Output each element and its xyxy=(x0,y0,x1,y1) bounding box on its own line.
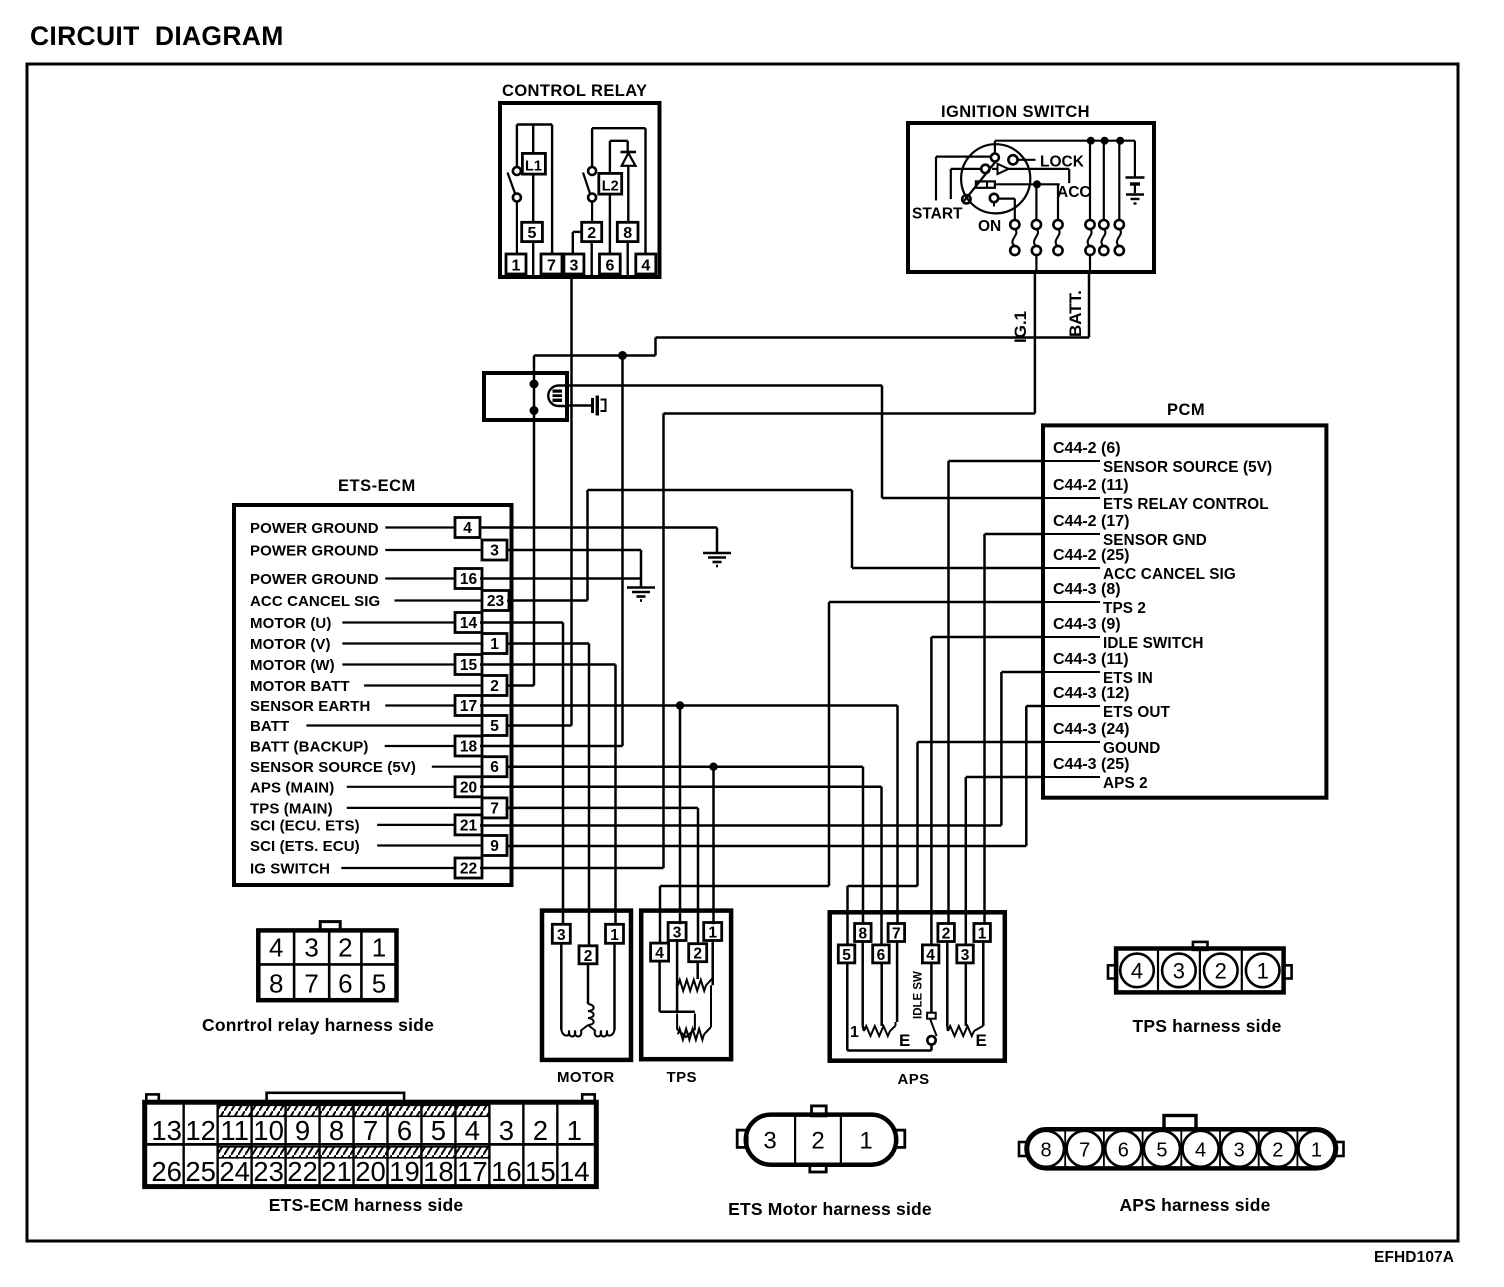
PCM pin C44-3 (25) APS 2 xyxy=(1044,756,1148,792)
svg-text:MOTOR BATT: MOTOR BATT xyxy=(250,678,350,695)
svg-text:7: 7 xyxy=(304,969,318,999)
APS sensor xyxy=(830,912,1005,1088)
svg-text:7: 7 xyxy=(892,926,901,943)
relay coil L1 xyxy=(532,125,534,154)
svg-text:3: 3 xyxy=(569,258,578,275)
svg-text:C44-3 (25): C44-3 (25) xyxy=(1053,756,1129,773)
TPS pin 2 xyxy=(689,944,707,962)
svg-text:POWER GROUND: POWER GROUND xyxy=(250,520,379,537)
svg-text:2: 2 xyxy=(533,1115,548,1146)
svg-text:2: 2 xyxy=(693,946,702,963)
wire pin7 to rail xyxy=(551,125,553,255)
svg-text:7: 7 xyxy=(547,258,556,275)
PCM pin C44-3 (11) ETS IN xyxy=(1044,651,1153,687)
svg-text:3: 3 xyxy=(763,1128,776,1155)
svg-text:MOTOR (U): MOTOR (U) xyxy=(250,615,331,632)
svg-text:1: 1 xyxy=(1257,958,1269,983)
ETS-ECM pin 9 SCI (ETS. ECU) xyxy=(250,836,507,856)
START node xyxy=(936,156,991,158)
svg-text:APS: APS xyxy=(898,1071,930,1088)
svg-text:21: 21 xyxy=(460,817,478,834)
svg-text:START: START xyxy=(912,206,963,223)
relay coil L2 xyxy=(610,140,628,142)
ETS-ECM pin 3 POWER GROUND xyxy=(250,540,507,560)
diode D1 xyxy=(627,141,629,152)
svg-text:10: 10 xyxy=(253,1115,284,1146)
motor pin 3 xyxy=(552,924,570,943)
svg-text:1: 1 xyxy=(372,933,386,963)
svg-text:3: 3 xyxy=(1173,958,1185,983)
relay pin 4 xyxy=(636,254,656,274)
svg-text:5: 5 xyxy=(431,1115,446,1146)
svg-text:4: 4 xyxy=(465,1115,480,1146)
control relay harness connector xyxy=(202,922,434,1035)
svg-text:11: 11 xyxy=(220,1115,249,1146)
svg-text:5: 5 xyxy=(842,947,851,964)
PCM pin C44-3 (12) ETS OUT xyxy=(1044,685,1171,721)
svg-text:18: 18 xyxy=(460,739,478,756)
rotor arm xyxy=(964,161,997,202)
junction node A xyxy=(618,351,627,360)
relay switch S1 xyxy=(516,125,518,168)
ACC contact xyxy=(951,168,981,170)
svg-text:C44-3 (9): C44-3 (9) xyxy=(1053,616,1121,633)
net SCI ECU-ETS / ETS IN xyxy=(480,672,1043,826)
svg-text:4: 4 xyxy=(463,520,472,537)
APS idle switch xyxy=(847,963,936,1051)
PCM pin C44-2 (17) SENSOR GND xyxy=(1044,513,1207,549)
wire MOTOR V xyxy=(507,644,589,946)
svg-text:SENSOR EARTH: SENSOR EARTH xyxy=(250,698,370,715)
svg-text:4: 4 xyxy=(641,258,650,275)
svg-text:25: 25 xyxy=(185,1156,216,1187)
svg-text:BATT (BACKUP): BATT (BACKUP) xyxy=(250,739,369,756)
ETS-ECM pin 14 MOTOR (U) xyxy=(250,613,482,633)
svg-text:TPS 2: TPS 2 xyxy=(1103,600,1146,617)
wire pin4 to rail xyxy=(644,128,646,254)
svg-text:2: 2 xyxy=(490,678,499,695)
battery B+ xyxy=(1134,141,1136,178)
svg-text:24: 24 xyxy=(219,1156,250,1187)
wire POWER GROUND 16 xyxy=(480,577,641,580)
svg-text:APS harness side: APS harness side xyxy=(1119,1195,1270,1215)
wire POWER GROUND 3 xyxy=(507,549,641,552)
svg-text:MOTOR (V): MOTOR (V) xyxy=(250,636,331,653)
svg-text:1: 1 xyxy=(567,1115,582,1146)
ETS-ECM pin 7 TPS (MAIN) xyxy=(250,798,507,818)
svg-text:2: 2 xyxy=(811,1128,824,1155)
svg-text:ETS-ECM harness side: ETS-ECM harness side xyxy=(269,1195,464,1215)
battery bus wire xyxy=(995,140,1135,142)
APS pin 8 xyxy=(855,924,872,942)
ETS-ECM pin 21 SCI (ECU. ETS) xyxy=(250,815,482,835)
wire MOTOR BATT xyxy=(507,684,534,687)
svg-text:6: 6 xyxy=(490,759,499,776)
svg-text:17: 17 xyxy=(457,1156,488,1187)
svg-text:6: 6 xyxy=(605,258,614,275)
svg-text:19: 19 xyxy=(389,1156,420,1187)
svg-text:3: 3 xyxy=(499,1115,514,1146)
svg-text:1: 1 xyxy=(610,927,619,944)
svg-text:2: 2 xyxy=(1272,1140,1283,1162)
svg-text:3: 3 xyxy=(557,927,566,944)
motor windings xyxy=(561,943,614,1036)
relay pin 1 xyxy=(506,254,526,274)
svg-text:C44-2 (25): C44-2 (25) xyxy=(1053,547,1129,564)
relay top rail left xyxy=(517,123,552,125)
ETS Motor harness connector xyxy=(728,1106,932,1219)
svg-text:17: 17 xyxy=(460,698,477,715)
svg-text:4: 4 xyxy=(1195,1140,1206,1162)
net SENSOR GND to APS1 xyxy=(985,534,1044,924)
net SENSOR EARTH xyxy=(480,701,898,924)
ETS-ECM pin 4 POWER GROUND xyxy=(250,518,480,538)
motor pin 1 xyxy=(606,924,624,943)
wire MOTOR U xyxy=(480,623,563,925)
net BATT. xyxy=(534,272,1089,384)
svg-text:1: 1 xyxy=(708,925,717,942)
ETS-ECM pin 23 ACC CANCEL SIG xyxy=(250,591,509,611)
svg-text:22: 22 xyxy=(460,861,477,878)
ground G2 xyxy=(627,586,655,589)
svg-text:Conrtrol relay harness side: Conrtrol relay harness side xyxy=(202,1015,434,1035)
svg-text:MOTOR (W): MOTOR (W) xyxy=(250,657,335,674)
ETS-ECM pin 6 SENSOR SOURCE (5V) xyxy=(250,757,507,777)
svg-text:EFHD107A: EFHD107A xyxy=(1374,1249,1454,1266)
motor M1 xyxy=(542,911,631,1086)
svg-text:L1: L1 xyxy=(525,159,542,175)
motor pin 2 xyxy=(579,946,597,964)
PCM pin C44-2 (6) SENSOR SOURCE (5V) xyxy=(1044,440,1272,476)
LOCK contact xyxy=(991,154,999,162)
svg-text:C44-3 (24): C44-3 (24) xyxy=(1053,721,1129,738)
svg-text:16: 16 xyxy=(491,1156,522,1187)
wire fuse to ETS relay control xyxy=(567,386,1043,499)
svg-text:1: 1 xyxy=(490,636,499,653)
PCM pin C44-3 (24) GOUND xyxy=(1044,721,1160,757)
PCM pin C44-2 (11) ETS RELAY CONTROL xyxy=(1044,477,1269,513)
svg-text:MOTOR: MOTOR xyxy=(557,1069,615,1086)
wire pin2 to pin3 xyxy=(573,231,582,233)
svg-text:2: 2 xyxy=(587,225,596,242)
ETS-ECM pin 15 MOTOR (W) xyxy=(250,655,482,675)
APS pin 6 xyxy=(873,945,890,963)
APS pin 3 xyxy=(957,945,974,963)
svg-text:3: 3 xyxy=(961,947,970,964)
svg-text:20: 20 xyxy=(460,779,477,796)
TPS sensor xyxy=(641,911,731,1086)
rotor circle xyxy=(961,144,1030,213)
wire relay pin3 to BATT row xyxy=(570,277,573,726)
APS pin 7 xyxy=(888,924,905,942)
svg-text:L2: L2 xyxy=(602,179,619,195)
rotor contact bar xyxy=(976,181,995,187)
svg-text:1: 1 xyxy=(850,1024,859,1041)
ETS-ECM pin 18 BATT (BACKUP) xyxy=(250,736,482,756)
ON feed wire xyxy=(995,183,1060,185)
wire BATT BACKUP xyxy=(480,745,623,748)
svg-text:8: 8 xyxy=(269,969,283,999)
svg-text:E: E xyxy=(976,1031,987,1050)
svg-text:ACC CANCEL SIG: ACC CANCEL SIG xyxy=(1103,566,1236,583)
TPS potentiometer R1 xyxy=(677,941,713,1012)
svg-text:ACC CANCEL SIG: ACC CANCEL SIG xyxy=(250,593,380,610)
svg-text:15: 15 xyxy=(460,657,478,674)
TPS pin 3 xyxy=(668,923,686,941)
net IG.1 xyxy=(664,272,1035,868)
svg-text:6: 6 xyxy=(397,1115,412,1146)
ignition contact columns xyxy=(1010,141,1124,272)
net SENSOR SOURCE 5V xyxy=(507,763,863,925)
svg-text:IG SWITCH: IG SWITCH xyxy=(250,861,330,878)
svg-text:SCI (ETS. ECU): SCI (ETS. ECU) xyxy=(250,838,360,855)
wire TPS MAIN xyxy=(507,808,698,944)
ETS-ECM U1 xyxy=(234,477,512,885)
svg-text:TPS harness side: TPS harness side xyxy=(1132,1016,1281,1036)
svg-text:7: 7 xyxy=(1079,1140,1090,1162)
relay pin 6 xyxy=(600,254,621,274)
svg-text:4: 4 xyxy=(655,945,664,962)
PCM U2 xyxy=(1043,401,1326,798)
wire APS MAIN xyxy=(480,787,882,945)
PCM pin C44-2 (25) ACC CANCEL SIG xyxy=(1044,547,1236,583)
TPS pin 4 xyxy=(651,943,669,961)
svg-text:23: 23 xyxy=(253,1156,284,1187)
svg-text:PCM: PCM xyxy=(1167,401,1205,419)
net ACC CANCEL SIG xyxy=(507,490,1043,601)
TPS pin 1 xyxy=(704,923,722,941)
svg-text:14: 14 xyxy=(559,1156,590,1187)
APS pin 2 xyxy=(938,924,955,942)
svg-text:C44-3 (12): C44-3 (12) xyxy=(1053,685,1129,702)
svg-text:2: 2 xyxy=(942,926,951,943)
ETS-ECM pin 1 MOTOR (V) xyxy=(250,634,507,654)
svg-text:TPS: TPS xyxy=(667,1069,697,1086)
svg-text:2: 2 xyxy=(584,948,593,965)
TPS potentiometer R2 with wiper xyxy=(660,961,711,1040)
net SENSOR SOURCE PCM to APS2 xyxy=(949,461,1044,924)
APS pin 5 xyxy=(838,945,855,963)
relay switch S2 xyxy=(591,128,593,167)
APS pin 1 xyxy=(974,924,991,942)
svg-text:15: 15 xyxy=(525,1156,556,1187)
svg-text:5: 5 xyxy=(1156,1140,1167,1162)
ON contact xyxy=(962,195,970,203)
svg-text:5: 5 xyxy=(490,718,499,735)
ETS-ECM pin 5 BATT xyxy=(250,716,507,736)
svg-text:POWER GROUND: POWER GROUND xyxy=(250,571,379,588)
net TPS 2 xyxy=(660,602,1043,943)
wire POWER GROUND 4 to ground xyxy=(480,526,717,529)
APS pin 4 xyxy=(922,945,939,963)
svg-text:5: 5 xyxy=(372,969,386,999)
svg-text:16: 16 xyxy=(460,571,478,588)
svg-text:6: 6 xyxy=(1118,1140,1129,1162)
svg-text:23: 23 xyxy=(487,593,505,610)
svg-text:9: 9 xyxy=(295,1115,310,1146)
svg-text:POWER GROUND: POWER GROUND xyxy=(250,543,379,560)
svg-text:CIRCUIT DIAGRAM: CIRCUIT DIAGRAM xyxy=(30,21,284,51)
net SCI ETS-ECU / ETS OUT xyxy=(507,706,1043,846)
svg-text:4: 4 xyxy=(1131,958,1143,983)
svg-text:1: 1 xyxy=(859,1128,872,1155)
svg-text:12: 12 xyxy=(185,1115,216,1146)
svg-text:13: 13 xyxy=(151,1115,182,1146)
ETS-ECM pin 17 SENSOR EARTH xyxy=(250,696,482,716)
net GOUND xyxy=(848,742,1044,945)
svg-text:IGNITION SWITCH: IGNITION SWITCH xyxy=(941,103,1090,121)
APS pot 2 xyxy=(947,942,987,1051)
svg-text:26: 26 xyxy=(151,1156,182,1187)
svg-text:20: 20 xyxy=(355,1156,386,1187)
svg-text:ETS RELAY CONTROL: ETS RELAY CONTROL xyxy=(1103,496,1269,513)
PCM pin C44-3 (8) TPS 2 xyxy=(1044,581,1146,617)
svg-text:E: E xyxy=(899,1031,910,1050)
svg-text:C44-2 (11): C44-2 (11) xyxy=(1053,477,1129,494)
svg-text:ETS-ECM: ETS-ECM xyxy=(338,477,416,495)
wire BATT xyxy=(507,724,572,727)
svg-text:9: 9 xyxy=(490,838,499,855)
svg-text:7: 7 xyxy=(490,800,499,817)
ignition switch SW1 xyxy=(908,103,1154,272)
svg-text:2: 2 xyxy=(1215,958,1227,983)
svg-text:14: 14 xyxy=(460,615,478,632)
svg-text:APS 2: APS 2 xyxy=(1103,775,1148,792)
wire junction to BATT BACKUP xyxy=(621,356,624,747)
net APS 2 xyxy=(966,777,1043,945)
relay pin 2 xyxy=(582,222,602,241)
relay top rail right xyxy=(592,127,645,129)
svg-text:GOUND: GOUND xyxy=(1103,740,1160,757)
TPS harness connector xyxy=(1108,942,1292,1036)
svg-text:C44-3 (11): C44-3 (11) xyxy=(1053,651,1129,668)
svg-text:BATT: BATT xyxy=(250,718,289,735)
relay pin 7 xyxy=(541,254,562,274)
svg-text:3: 3 xyxy=(673,925,682,942)
svg-text:6: 6 xyxy=(338,969,352,999)
relay pin 3 xyxy=(564,254,584,274)
wire IG SWITCH row xyxy=(480,867,664,870)
svg-text:IDLE SW: IDLE SW xyxy=(913,971,925,1019)
svg-text:1: 1 xyxy=(978,926,987,943)
APS harness connector xyxy=(1019,1116,1344,1216)
svg-text:8: 8 xyxy=(329,1115,344,1146)
control relay K1 xyxy=(500,82,660,277)
svg-text:1: 1 xyxy=(512,258,521,275)
svg-text:BATT.: BATT. xyxy=(1066,290,1085,337)
svg-text:3: 3 xyxy=(490,543,499,560)
ETS-ECM pin 20 APS (MAIN) xyxy=(250,777,482,797)
ETS-ECM pin 16 POWER GROUND xyxy=(250,569,482,589)
capacitor C1 xyxy=(567,396,606,416)
net IDLE SWITCH xyxy=(931,637,1043,945)
svg-text:1: 1 xyxy=(1311,1140,1322,1162)
svg-text:6: 6 xyxy=(877,947,886,964)
svg-text:22: 22 xyxy=(287,1156,318,1187)
svg-text:SCI (ECU. ETS): SCI (ECU. ETS) xyxy=(250,817,360,834)
svg-text:3: 3 xyxy=(304,933,318,963)
relay pin 5 xyxy=(522,222,543,241)
svg-text:SENSOR SOURCE (5V): SENSOR SOURCE (5V) xyxy=(1103,459,1272,476)
svg-text:18: 18 xyxy=(423,1156,454,1187)
svg-text:ETS OUT: ETS OUT xyxy=(1103,704,1171,721)
svg-text:TPS (MAIN): TPS (MAIN) xyxy=(250,800,333,817)
svg-text:8: 8 xyxy=(858,926,867,943)
svg-text:APS (MAIN): APS (MAIN) xyxy=(250,779,334,796)
svg-text:8: 8 xyxy=(623,225,632,242)
svg-text:SENSOR SOURCE (5V): SENSOR SOURCE (5V) xyxy=(250,759,416,776)
svg-text:4: 4 xyxy=(269,933,283,963)
svg-text:C44-2 (6): C44-2 (6) xyxy=(1053,440,1121,457)
ground G1 xyxy=(703,552,731,555)
svg-text:3: 3 xyxy=(1234,1140,1245,1162)
svg-text:C44-3 (8): C44-3 (8) xyxy=(1053,581,1121,598)
svg-text:5: 5 xyxy=(528,225,537,242)
svg-text:IDLE SWITCH: IDLE SWITCH xyxy=(1103,635,1204,652)
svg-text:C44-2 (17): C44-2 (17) xyxy=(1053,513,1129,530)
svg-text:2: 2 xyxy=(338,933,352,963)
relay pin 8 xyxy=(617,222,638,241)
svg-text:CONTROL RELAY: CONTROL RELAY xyxy=(502,82,647,100)
fuse box F1 xyxy=(484,373,567,686)
svg-text:8: 8 xyxy=(1040,1140,1051,1162)
wire MOTOR W xyxy=(480,665,616,925)
ETS-ECM pin 22 IG SWITCH xyxy=(250,858,482,878)
fuse element xyxy=(548,386,567,407)
ETS-ECM pin 2 MOTOR BATT xyxy=(250,676,507,696)
svg-text:4: 4 xyxy=(926,947,935,964)
svg-text:ON: ON xyxy=(978,218,1001,235)
svg-text:ACC: ACC xyxy=(1057,184,1091,201)
svg-text:21: 21 xyxy=(321,1156,352,1187)
PCM pin C44-3 (9) IDLE SWITCH xyxy=(1044,616,1204,652)
APS pot 1 xyxy=(850,942,910,1051)
svg-text:7: 7 xyxy=(363,1115,378,1146)
svg-text:ETS Motor harness side: ETS Motor harness side xyxy=(728,1199,932,1219)
ETS-ECM harness connector xyxy=(145,1093,597,1215)
